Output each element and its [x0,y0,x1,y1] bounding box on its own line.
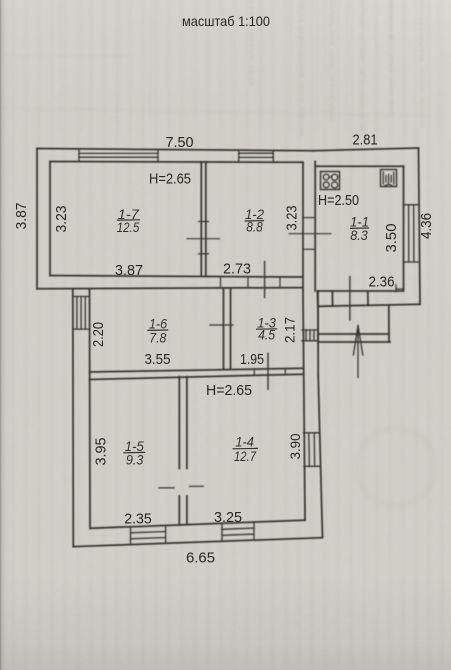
stove icon in kitchen [321,172,340,190]
svg-text:3.55: 3.55 [145,351,171,368]
svg-text:3.95: 3.95 [93,438,110,466]
door jambs in band between 1-2 and 1-3 [221,277,281,288]
window in left wall of 1-6 [73,297,90,330]
porch platform bottom [318,333,389,335]
wire: kitchen top outer wall [314,148,419,151]
east wall of house below kitchen [303,291,305,520]
svg-text:1.95: 1.95 [240,351,264,368]
wire: left inner wall [49,162,51,276]
svg-text:3.90: 3.90 [287,433,303,459]
entry arrow [353,326,362,378]
svg-text:12.5: 12.5 [117,219,140,235]
label room 1-7 [117,206,140,235]
wire: kitchen inner top wall [315,165,403,167]
svg-text:взято на кадастровий облік під: взято на кадастровий облік підстав [298,0,306,137]
svg-text:державна реєстрація права влас: державна реєстрація права влас [388,0,396,117]
label room 1-6 [147,316,168,346]
room labels (handwritten style) [117,206,369,468]
window in bottom wall below 1-4 [222,522,254,541]
door marks on wall 1-2/kitchen [289,218,331,250]
wire: bottom outer wall [73,538,322,547]
wire: bottom wall of top block inner line [50,276,303,278]
window W1 top wall room 1-7 [79,150,158,162]
window W2 top wall room 1-2 [239,150,273,162]
wall between 1-5 and 1-4 [178,377,180,469]
svg-text:технічний паспорт виготовлений: технічний паспорт виготовлений на [358,0,366,132]
svg-text:масштаб 1:100: масштаб 1:100 [182,13,270,29]
window in east wall of 1-3 [302,330,318,341]
wire: kitchen east outer wall [419,148,421,304]
svg-text:4.36: 4.36 [418,213,435,239]
door line 1-3 to 1-4 [267,353,269,389]
svg-text:H=2.65: H=2.65 [149,171,191,188]
porch right edge [388,306,390,342]
label room 1-2 [245,206,265,235]
svg-text:H=2.50: H=2.50 [318,192,359,209]
svg-text:3.87: 3.87 [13,203,30,230]
wire: left inner wall middle+bottom [89,289,92,529]
svg-text:2.81: 2.81 [353,132,378,149]
window in bottom wall below 1-5 [131,526,166,545]
wire: top inner wall line [50,161,303,164]
wire: left outer wall middle+bottom [72,289,75,547]
svg-text:3.50: 3.50 [383,224,400,253]
door line kitchen entry [349,277,351,320]
wire: bottom inner wall [90,520,305,528]
svg-text:8.8: 8.8 [246,219,263,235]
svg-text:7.50: 7.50 [166,134,194,151]
svg-text:3.23: 3.23 [53,206,70,233]
svg-text:7.8: 7.8 [149,329,166,345]
porch step edge [318,341,390,343]
door line between 1-2 and 1-3 [264,262,266,298]
kitchen south wall (porch door wall) [317,290,403,292]
faint bleed-through text columns [248,0,426,137]
svg-text:2.17: 2.17 [282,317,298,343]
dimension line for 2.36 [396,285,404,292]
wire: kitchen east inner wall [403,166,405,291]
svg-text:2.35: 2.35 [124,511,152,528]
svg-text:2.36: 2.36 [369,274,395,291]
wall band between middle and bottom blocks [90,368,304,372]
svg-text:реєстраційний номер об'єкта не: реєстраційний номер об'єкта нерух [328,0,336,123]
svg-text:9.3: 9.3 [126,452,144,468]
svg-text:3.23: 3.23 [285,206,301,231]
wall between room 1-7 and 1-2 [200,162,202,276]
wire: left outer wall [36,149,38,289]
label room 1-3 [256,315,277,343]
svg-text:2.73: 2.73 [223,261,251,278]
svg-text:H=2.65: H=2.65 [206,382,252,399]
wire: bottom wall of top block outer line [37,288,303,289]
svg-text:3.87: 3.87 [115,262,143,279]
faint bleed-through grid of reverse side [0,0,448,506]
door marks on wall 1-7/1-2 [187,222,219,254]
svg-text:4.5: 4.5 [258,327,275,343]
label room 1-4 [233,434,258,465]
label room 1-1 [350,214,369,244]
svg-text:інвентаризаційна справа будино: інвентаризаційна справа будинок [418,0,426,128]
porch left edge [317,306,319,342]
door jambs 1-3 to 1-4 [254,369,285,376]
svg-text:2.20: 2.20 [90,322,107,347]
window in east wall of 1-4 [304,433,321,467]
wall between 1-6 and 1-3 [223,288,225,369]
window in kitchen east wall [404,205,420,262]
svg-text:6.65: 6.65 [186,550,215,567]
wall between room 1-2 and kitchen [302,162,304,291]
boiler icon in kitchen [381,170,397,187]
svg-text:3.25: 3.25 [214,509,242,526]
door dash on wall 1-6/1-3 [210,324,233,326]
door dashes 1-5/1-4 [159,486,203,488]
label room 1-5 [123,438,145,468]
svg-text:8.3: 8.3 [350,227,368,243]
wire: top outer wall left part [37,149,314,151]
svg-text:12.7: 12.7 [234,448,257,464]
